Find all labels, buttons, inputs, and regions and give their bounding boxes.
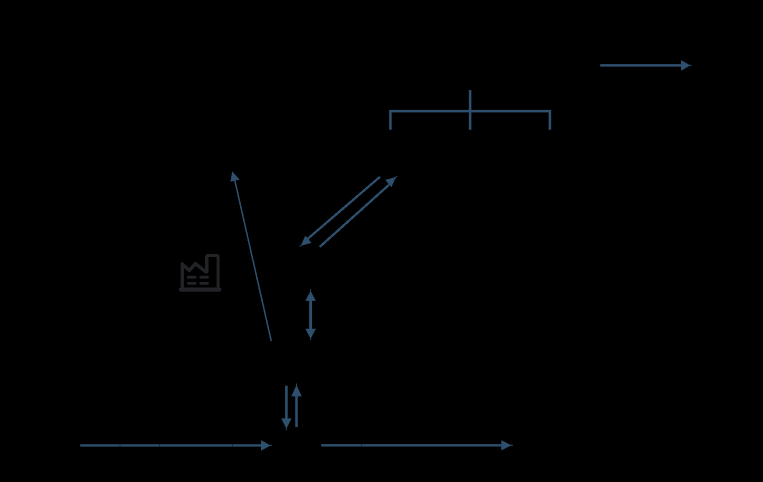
wire: long diagonal arrow up-left	[230, 171, 271, 341]
wire: short up arrow	[291, 384, 302, 428]
wire: vertical double-headed arrow	[305, 289, 316, 340]
wire: short down arrow	[281, 386, 291, 431]
node A: bracket group marker	[390, 90, 550, 130]
wire: bottom-left horizontal arrow (joined segments)	[80, 440, 272, 451]
wire: bottom-right horizontal arrow (joined segments)	[321, 440, 513, 450]
factory icon	[181, 256, 219, 290]
wire: top-right horizontal arrow	[600, 60, 691, 71]
wire: diagonal double arrow line B (arrow to upper-right)	[320, 176, 397, 247]
wire: diagonal double arrow line A (arrow to lower-left)	[300, 177, 380, 247]
